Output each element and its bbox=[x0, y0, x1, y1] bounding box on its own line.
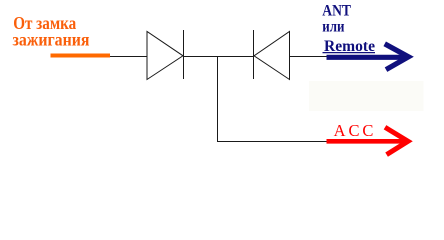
arrow ACC tail bbox=[327, 139, 409, 144]
diode D1 triangle bbox=[147, 32, 183, 80]
faint erased box bbox=[309, 81, 424, 111]
wire: D1 to D2 bbox=[184, 56, 254, 58]
wire: feed to diode D1 bbox=[110, 56, 147, 58]
wire: D2 to ANT arrow bbox=[290, 56, 328, 58]
diode D2 triangle bbox=[254, 32, 290, 80]
svg-text:или: или bbox=[322, 19, 344, 36]
svg-text:ANT: ANT bbox=[322, 3, 351, 20]
svg-text:ACC: ACC bbox=[334, 121, 374, 140]
label ANT или Remote bbox=[322, 3, 375, 55]
node: junction drop wire bbox=[217, 56, 219, 142]
diode D1 cathode bar bbox=[183, 30, 185, 79]
arrow ANT/Remote head bbox=[385, 44, 409, 70]
arrow ACC head bbox=[385, 127, 408, 154]
underline of Remote bbox=[323, 52, 376, 54]
label "От замка зажигания" bbox=[13, 13, 90, 50]
arrow ANT/Remote tail bbox=[327, 55, 408, 60]
wire: bottom run to ACC bbox=[217, 141, 327, 143]
svg-text:зажигания: зажигания bbox=[13, 30, 90, 50]
diode D2 cathode bar bbox=[253, 30, 255, 79]
wire: orange feed segment bbox=[51, 53, 111, 57]
